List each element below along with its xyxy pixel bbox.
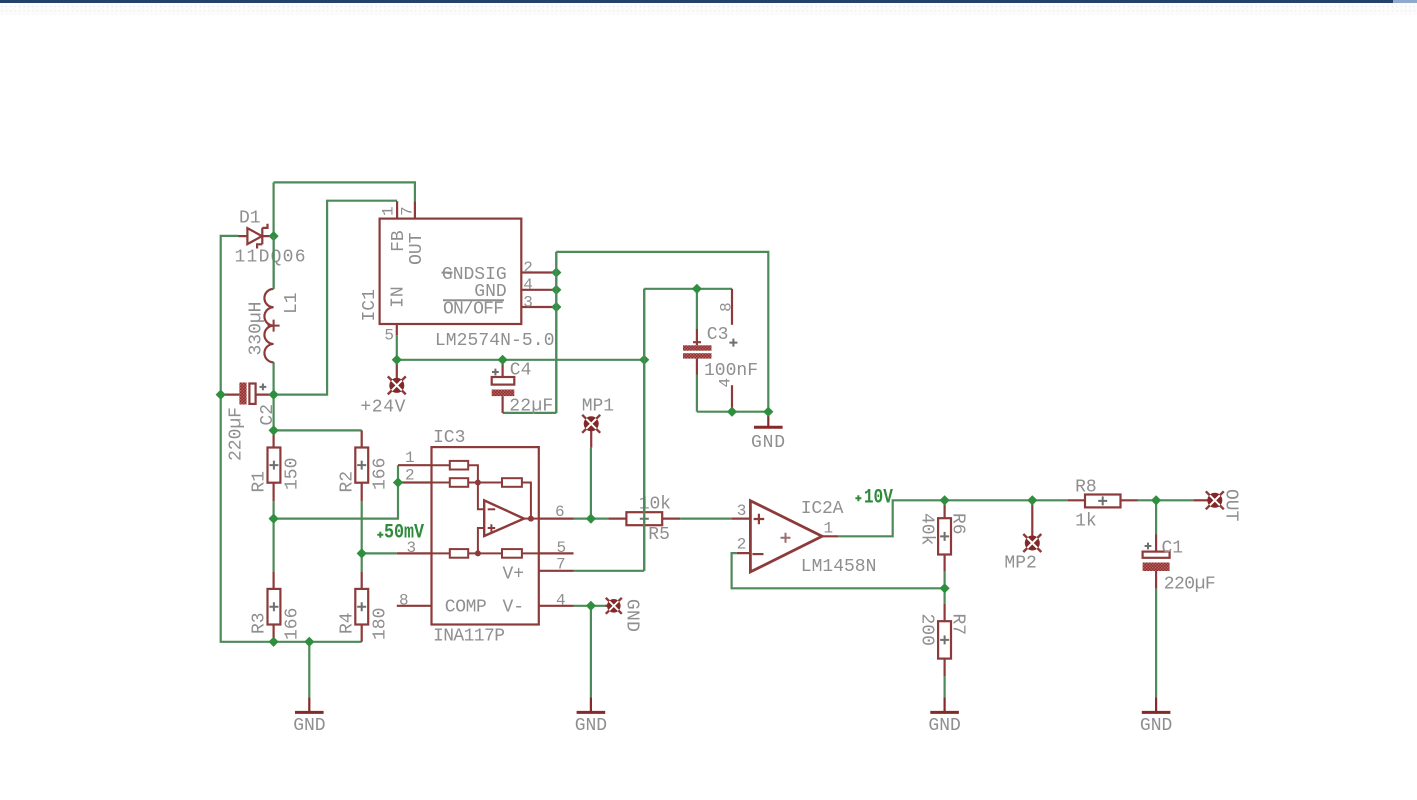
svg-text:330µH: 330µH	[247, 302, 267, 356]
resistor R5 10k	[608, 512, 680, 525]
plus sign C2	[260, 384, 267, 391]
svg-text:R1: R1	[250, 471, 270, 493]
svg-text:6: 6	[555, 503, 565, 521]
capacitor C1 220uF	[1143, 535, 1170, 589]
wire pin4 node down to GND	[590, 606, 592, 698]
origin cross R3	[269, 602, 278, 611]
node R1/R3 mid	[269, 514, 279, 524]
svg-text:166: 166	[370, 458, 390, 490]
origin cross R8	[1098, 496, 1107, 505]
svg-text:220µF: 220µF	[1164, 575, 1216, 595]
svg-text:220µF: 220µF	[227, 407, 247, 461]
origin cross IC2A	[781, 533, 791, 543]
node R6 top 10V	[940, 495, 950, 505]
svg-text:1k: 1k	[1075, 512, 1097, 532]
wire R6 bottom to R7 top	[943, 572, 945, 604]
svg-text:10V: 10V	[864, 486, 893, 509]
wire IC1 gnd pins top over to C3 gnd corner	[556, 252, 768, 412]
svg-text:R3: R3	[250, 612, 270, 634]
svg-text:GND: GND	[622, 599, 642, 632]
wire C4 bottom to gnd pins vertical	[503, 412, 557, 414]
wire IC3 pin7 link	[574, 570, 645, 572]
wire pin3 node to IC3 pin 3	[362, 552, 397, 554]
svg-text:5: 5	[384, 327, 394, 345]
wire R5 to IC2A pin3	[680, 517, 732, 519]
inductor L1 330uH	[264, 289, 273, 362]
svg-text:GND: GND	[575, 716, 607, 736]
supply +24V marker	[388, 360, 406, 395]
top browser bar	[0, 0, 1417, 3]
wire top A from above D1 to IC1 pin7 OUT	[274, 182, 415, 201]
svg-text:11DQ06: 11DQ06	[235, 248, 306, 268]
node R6/R7 feedback	[940, 583, 950, 593]
svg-text:MP2: MP2	[1004, 554, 1036, 574]
net label 50mV	[377, 521, 424, 544]
op-amp IC2A LM1458N	[732, 501, 839, 572]
svg-text:GND: GND	[293, 716, 325, 736]
svg-text:INA117P: INA117P	[433, 627, 505, 647]
measure point MP2 marker	[1023, 500, 1041, 552]
wire IC3 pin4 to GND marker	[574, 605, 608, 607]
diode D1 11DQ06	[239, 224, 274, 249]
node IC3 pin4 gnd	[586, 601, 596, 611]
wire C1 bottom to GND	[1155, 589, 1157, 698]
plus sign C3	[729, 339, 737, 347]
resistor R1 150	[268, 430, 281, 501]
resistor R3 166	[268, 572, 281, 642]
wire R7 bottom to GND	[943, 676, 945, 697]
node IC3 pin6 / MP1	[586, 514, 596, 524]
node C2 right	[269, 390, 279, 400]
node R3 bottom rail	[269, 637, 279, 647]
svg-text:GND: GND	[928, 716, 960, 736]
node MP2	[1027, 495, 1037, 505]
svg-text:C4: C4	[510, 361, 532, 381]
wire V+ vertical to IC3 pin7	[643, 289, 645, 571]
node D1 cathode	[269, 231, 279, 241]
output OUT marker	[1193, 491, 1224, 509]
node IC1 pin3	[551, 302, 561, 312]
op-amp inside IC3 with input resistors	[432, 461, 539, 558]
node +24V	[392, 355, 402, 365]
origin cross R5	[640, 514, 649, 523]
IC3 INA117P box	[397, 447, 574, 624]
wire C3 bottom rail to GND	[697, 411, 768, 413]
svg-text:IC3: IC3	[433, 428, 465, 448]
svg-text:3: 3	[737, 502, 747, 520]
svg-text:8: 8	[399, 592, 409, 610]
svg-text:7: 7	[399, 206, 417, 216]
svg-text:L1: L1	[282, 292, 302, 314]
GND reference marker at IC3 pin4	[605, 598, 621, 614]
wire IC1 pin5 to +24V rail	[396, 335, 398, 360]
svg-text:150: 150	[283, 458, 303, 490]
node C2 left rail	[216, 390, 226, 400]
svg-text:C1: C1	[1162, 539, 1184, 559]
wire L1 bottom to C2 node to R1 top node	[273, 362, 275, 430]
measure point MP1 marker	[582, 415, 600, 448]
svg-text:40k: 40k	[917, 513, 937, 545]
ground symbol below R7	[930, 697, 959, 713]
wire C3 top tail	[696, 289, 698, 329]
svg-text:2: 2	[523, 259, 533, 277]
wire IC3 pin6 to R5	[574, 517, 609, 519]
svg-text:22µF: 22µF	[509, 397, 553, 417]
svg-text:R4: R4	[337, 612, 357, 634]
svg-text:OUT: OUT	[1221, 489, 1241, 522]
node C1 top	[1151, 495, 1161, 505]
svg-text:1: 1	[824, 520, 834, 538]
ground symbol at C3	[754, 412, 783, 429]
svg-text:OUT: OUT	[407, 232, 427, 265]
wire IC1 gnd vertical redrawn over value text	[555, 252, 557, 413]
svg-text:166: 166	[283, 608, 303, 640]
wire mid node to IC3 pins 1,2	[274, 465, 398, 518]
wire V+ vertical redrawn over R5 body	[643, 289, 645, 571]
plus sign C4	[492, 369, 499, 376]
svg-text:GND: GND	[751, 433, 785, 453]
resistor R8 1k	[1068, 495, 1138, 508]
wire D1 node to L1 redrawn over value text	[273, 236, 275, 289]
wire IC1 gnd pins vertical	[555, 252, 557, 413]
resistor R7 200	[938, 604, 951, 676]
net label 10V	[855, 486, 893, 509]
svg-text:R8: R8	[1075, 478, 1097, 498]
origin cross R7	[940, 635, 949, 644]
node R2/R4 mid	[357, 548, 367, 558]
svg-text:4: 4	[556, 592, 566, 610]
node gnd stem rail	[304, 637, 314, 647]
svg-text:3: 3	[523, 293, 533, 311]
wire MP1 stem to pin6 node	[590, 448, 592, 519]
node V+ rail	[639, 355, 649, 365]
svg-text:50mV: 50mV	[384, 521, 424, 544]
ground symbol below C1	[1142, 697, 1171, 713]
resistor R2 166	[355, 430, 368, 501]
origin cross R6	[940, 532, 949, 541]
wire +24V rail	[397, 359, 644, 361]
svg-text:LM1458N: LM1458N	[801, 557, 877, 577]
svg-text:+24V: +24V	[360, 398, 405, 418]
svg-text:LM2574N-5.0: LM2574N-5.0	[435, 331, 555, 351]
origin cross R2	[357, 461, 366, 470]
wire left rail from D1 anode down to bottom rail	[221, 236, 362, 642]
svg-text:R5: R5	[648, 525, 670, 545]
plus sign C1	[1145, 543, 1152, 550]
wire D1 cathode node up to top wire A	[273, 182, 275, 236]
svg-text:2: 2	[405, 466, 415, 484]
svg-text:MP1: MP1	[582, 397, 614, 417]
svg-text:7: 7	[556, 556, 566, 574]
origin cross R1	[269, 461, 278, 470]
svg-text:200: 200	[917, 614, 937, 646]
origin cross L1	[268, 320, 280, 332]
wire C1 top tail	[1155, 500, 1157, 534]
svg-text:V-: V-	[503, 597, 525, 617]
node pin4 stub gnd rail	[727, 407, 737, 417]
ground symbol bottom-left	[295, 697, 324, 713]
svg-text:V+: V+	[503, 564, 525, 584]
svg-text:5: 5	[557, 539, 567, 557]
wire R1 bottom to R3 top through mid node	[273, 501, 275, 571]
IC2 power pin 4 stub	[731, 385, 733, 412]
svg-text:100nF: 100nF	[704, 361, 758, 381]
node C3 top	[692, 284, 702, 294]
node C4 top	[498, 355, 508, 365]
capacitor C2 220uF	[221, 383, 274, 405]
capacitor C4 22uF	[492, 361, 515, 413]
node R1 top	[269, 425, 279, 435]
wire D1 node down to L1 top	[273, 236, 275, 289]
resistor R4 180	[355, 572, 368, 642]
node C3 gnd corner	[763, 407, 773, 417]
svg-text:D1: D1	[239, 209, 261, 229]
svg-text:1: 1	[405, 449, 415, 467]
wire V+ top over to C3 top and IC2 pin8 stub	[644, 288, 732, 290]
wire R1 top node to R2 top lead	[274, 429, 362, 431]
origin cross R4	[357, 602, 366, 611]
wire 10V rail after R8 to OUT	[1138, 499, 1194, 501]
wire GND stem bottom-left	[308, 642, 310, 698]
svg-text:180: 180	[370, 608, 390, 640]
svg-text:R6: R6	[948, 513, 968, 535]
svg-text:R2: R2	[337, 471, 357, 493]
wire IC2A pin2 feedback to R6/R7 node	[732, 553, 945, 588]
svg-text:C3: C3	[707, 325, 729, 345]
resistor R6 40k	[938, 500, 951, 572]
svg-text:COMP: COMP	[445, 597, 487, 617]
node IC1 pin4	[551, 285, 561, 295]
svg-text:C2: C2	[258, 404, 278, 426]
IC1 LM2574N-5.0 box	[380, 201, 557, 335]
svg-text:IC2A: IC2A	[801, 499, 844, 519]
svg-text:2: 2	[737, 535, 747, 553]
svg-text:IC1: IC1	[360, 289, 380, 321]
wire C3 bottom tail	[696, 375, 698, 412]
IC2 power pin 8 stub	[731, 289, 733, 325]
node IC1 pin2	[551, 267, 561, 277]
svg-text:4: 4	[523, 276, 533, 294]
wire IC2A output to 10V rail	[838, 500, 1067, 536]
svg-text:R7: R7	[948, 614, 968, 636]
svg-text:GND: GND	[1140, 716, 1172, 736]
svg-text:8: 8	[717, 302, 735, 312]
svg-text:1: 1	[380, 206, 398, 216]
svg-text:ON/OFF: ON/OFF	[443, 300, 504, 320]
wire B C2 node right and up to IC1 pin1 FB	[274, 201, 398, 395]
svg-text:4: 4	[716, 378, 734, 388]
svg-text:IN: IN	[389, 286, 409, 308]
node IC3 pin2	[393, 477, 403, 487]
capacitor C3 100nF	[683, 329, 712, 375]
ground symbol below IC3	[577, 697, 606, 713]
wire R2 bottom to R4 top through pin3 node	[361, 501, 363, 571]
